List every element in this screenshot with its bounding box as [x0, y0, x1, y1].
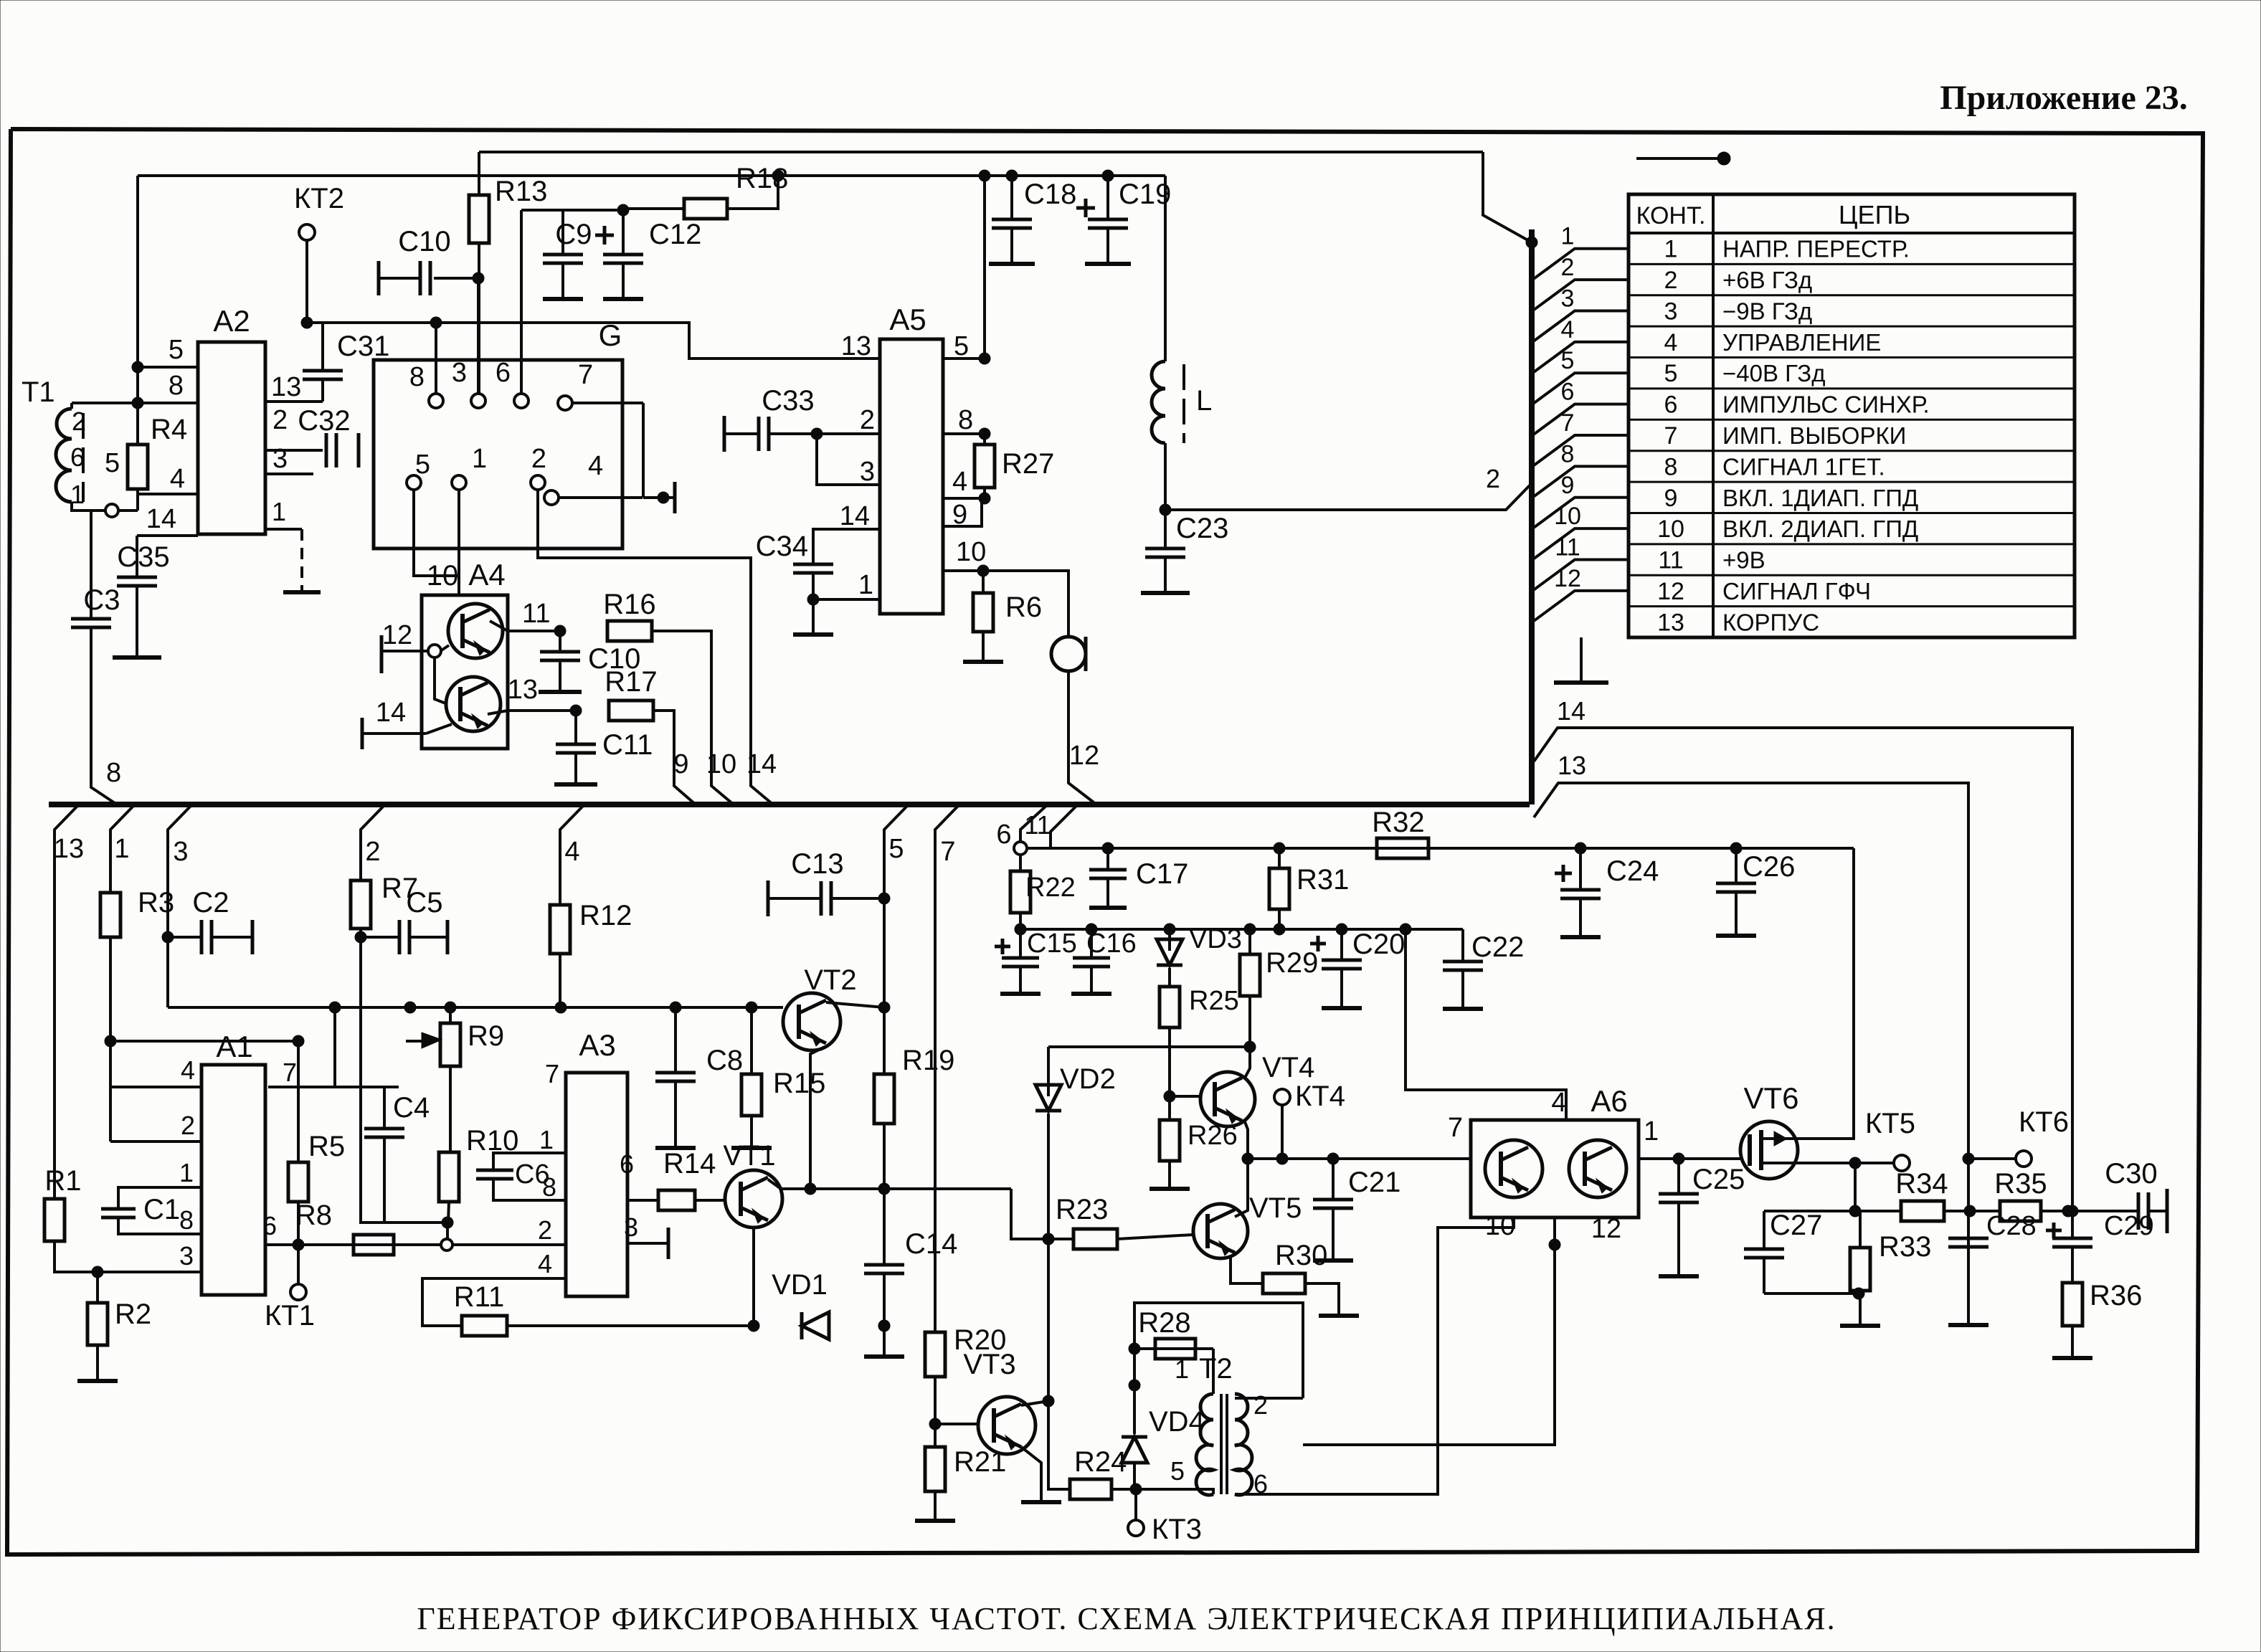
svg-text:14: 14: [146, 504, 176, 534]
svg-text:3: 3: [179, 1241, 194, 1271]
svg-text:А3: А3: [579, 1028, 615, 1062]
svg-text:C29: C29: [2104, 1211, 2154, 1241]
svg-text:R13: R13: [495, 176, 547, 207]
svg-text:10: 10: [1485, 1211, 1515, 1241]
svg-text:R6: R6: [1005, 592, 1042, 623]
svg-text:6: 6: [996, 820, 1011, 850]
svg-text:8: 8: [169, 371, 184, 401]
svg-text:КТ6: КТ6: [2019, 1106, 2069, 1138]
svg-text:1: 1: [1561, 223, 1575, 250]
svg-text:C12: C12: [649, 219, 701, 250]
svg-text:2: 2: [1664, 267, 1678, 294]
svg-text:6: 6: [1561, 379, 1575, 406]
svg-text:6: 6: [620, 1149, 634, 1179]
svg-text:12: 12: [382, 620, 412, 650]
svg-text:C25: C25: [1692, 1164, 1745, 1195]
svg-text:VD3: VD3: [1189, 924, 1242, 954]
svg-text:14: 14: [1557, 696, 1585, 726]
svg-text:C15: C15: [1027, 929, 1077, 959]
svg-text:12: 12: [1554, 565, 1581, 592]
svg-text:C27: C27: [1770, 1210, 1822, 1241]
svg-text:7: 7: [283, 1058, 297, 1087]
svg-text:10: 10: [1554, 503, 1581, 530]
svg-text:12: 12: [1591, 1214, 1621, 1244]
svg-text:7: 7: [1561, 409, 1575, 437]
svg-text:R8: R8: [295, 1200, 332, 1231]
svg-text:НАПР. ПЕРЕСТР.: НАПР. ПЕРЕСТР.: [1722, 236, 1910, 262]
svg-text:13: 13: [1657, 609, 1684, 636]
svg-text:C32: C32: [298, 405, 350, 437]
svg-text:10: 10: [706, 749, 736, 779]
svg-text:C24: C24: [1606, 855, 1659, 887]
svg-text:C13: C13: [791, 848, 843, 880]
svg-text:А5: А5: [889, 303, 926, 336]
svg-text:3: 3: [452, 358, 467, 388]
svg-text:5: 5: [169, 335, 184, 365]
svg-text:А2: А2: [213, 304, 250, 338]
svg-text:6: 6: [70, 442, 85, 472]
svg-text:C26: C26: [1743, 851, 1795, 883]
svg-text:VD2: VD2: [1060, 1063, 1116, 1095]
svg-text:R21: R21: [954, 1446, 1006, 1478]
svg-text:14: 14: [376, 698, 406, 728]
svg-text:+6В ГЗд: +6В ГЗд: [1722, 267, 1812, 293]
svg-text:4: 4: [1664, 329, 1678, 356]
svg-text:13: 13: [508, 675, 538, 705]
svg-text:КТ3: КТ3: [1152, 1514, 1202, 1545]
svg-text:VD1: VD1: [772, 1269, 828, 1301]
svg-text:R2: R2: [115, 1299, 151, 1330]
svg-text:3: 3: [1664, 298, 1678, 325]
svg-text:R25: R25: [1189, 986, 1239, 1016]
svg-text:R24: R24: [1074, 1446, 1127, 1478]
svg-text:А4: А4: [468, 558, 505, 592]
svg-text:R28: R28: [1138, 1307, 1190, 1339]
svg-text:VT5: VT5: [1249, 1192, 1302, 1224]
svg-text:1: 1: [70, 480, 85, 509]
svg-text:C16: C16: [1086, 929, 1137, 959]
svg-text:5: 5: [888, 834, 904, 864]
svg-text:3: 3: [1561, 285, 1575, 312]
svg-text:C20: C20: [1352, 929, 1405, 960]
svg-text:13: 13: [271, 372, 301, 402]
svg-text:10: 10: [427, 560, 459, 592]
svg-text:ИМПУЛЬС СИНХР.: ИМПУЛЬС СИНХР.: [1722, 391, 1930, 418]
svg-text:C34: C34: [756, 531, 808, 562]
svg-text:4: 4: [564, 837, 579, 867]
svg-text:R4: R4: [151, 414, 187, 445]
svg-text:5: 5: [1561, 347, 1575, 374]
svg-text:VT3: VT3: [963, 1349, 1015, 1380]
svg-text:C19: C19: [1119, 179, 1171, 210]
svg-text:7: 7: [1664, 422, 1678, 450]
svg-text:C4: C4: [393, 1092, 430, 1124]
svg-text:R17: R17: [605, 666, 657, 698]
svg-text:−40В ГЗд: −40В ГЗд: [1722, 360, 1826, 386]
svg-text:8: 8: [409, 362, 425, 392]
svg-text:5: 5: [954, 331, 969, 361]
svg-text:C35: C35: [117, 541, 169, 573]
svg-text:КОРПУС: КОРПУС: [1722, 609, 1819, 635]
svg-text:7: 7: [545, 1059, 559, 1088]
svg-text:Т1: Т1: [22, 376, 55, 408]
svg-text:R34: R34: [1895, 1168, 1948, 1200]
svg-text:2: 2: [72, 407, 86, 436]
svg-text:11: 11: [1555, 534, 1580, 561]
svg-text:+9В: +9В: [1722, 547, 1765, 574]
svg-text:5: 5: [1664, 360, 1678, 387]
svg-text:10: 10: [956, 537, 986, 567]
svg-text:R23: R23: [1056, 1194, 1108, 1225]
svg-text:VT6: VT6: [1743, 1081, 1798, 1115]
svg-text:7: 7: [578, 360, 593, 390]
svg-text:7: 7: [1448, 1113, 1463, 1143]
svg-text:C10: C10: [398, 226, 450, 257]
svg-text:9: 9: [673, 749, 688, 779]
svg-text:8: 8: [1664, 453, 1678, 480]
svg-text:9: 9: [1664, 485, 1678, 512]
svg-text:Приложение 23.: Приложение 23.: [1940, 79, 2188, 117]
svg-text:C8: C8: [706, 1045, 743, 1076]
svg-text:R30: R30: [1275, 1240, 1327, 1271]
svg-text:R19: R19: [902, 1045, 954, 1076]
svg-text:5: 5: [105, 448, 120, 478]
svg-text:6: 6: [262, 1211, 277, 1240]
svg-text:5: 5: [1170, 1456, 1185, 1486]
svg-text:8: 8: [1561, 440, 1575, 467]
svg-text:ВКЛ. 1ДИАП. ГПД: ВКЛ. 1ДИАП. ГПД: [1722, 485, 1918, 511]
svg-text:2: 2: [1561, 254, 1575, 281]
svg-text:А6: А6: [1591, 1084, 1627, 1118]
svg-text:2: 2: [531, 444, 546, 474]
svg-text:C1: C1: [143, 1194, 180, 1225]
svg-text:R5: R5: [308, 1131, 345, 1162]
svg-text:КТ2: КТ2: [294, 183, 344, 214]
svg-text:R15: R15: [773, 1068, 825, 1099]
svg-text:2: 2: [181, 1111, 195, 1140]
svg-text:1: 1: [179, 1158, 194, 1187]
svg-text:2: 2: [1253, 1390, 1268, 1420]
svg-text:L: L: [1196, 385, 1212, 417]
svg-text:−9В ГЗд: −9В ГЗд: [1722, 298, 1812, 324]
svg-text:ИМП. ВЫБОРКИ: ИМП. ВЫБОРКИ: [1722, 422, 1906, 449]
svg-text:C17: C17: [1136, 858, 1188, 890]
svg-text:13: 13: [841, 331, 871, 361]
svg-text:VT4: VT4: [1262, 1052, 1314, 1083]
svg-text:4: 4: [1561, 316, 1575, 343]
svg-text:R35: R35: [1994, 1168, 2047, 1200]
svg-text:R27: R27: [1002, 448, 1054, 480]
svg-text:9: 9: [1561, 472, 1575, 499]
svg-text:2: 2: [860, 405, 875, 435]
svg-text:1: 1: [272, 497, 286, 526]
svg-text:4: 4: [588, 451, 603, 481]
svg-text:А1: А1: [216, 1030, 252, 1063]
svg-text:2: 2: [538, 1215, 552, 1245]
svg-text:C33: C33: [762, 385, 814, 417]
svg-text:4: 4: [1551, 1088, 1566, 1118]
svg-text:13: 13: [1558, 751, 1586, 780]
svg-text:R11: R11: [454, 1281, 504, 1313]
svg-text:1: 1: [858, 570, 873, 600]
svg-text:C11: C11: [602, 729, 653, 761]
svg-text:VD4: VD4: [1149, 1406, 1205, 1438]
svg-text:C14: C14: [905, 1228, 957, 1260]
svg-text:КОНТ.: КОНТ.: [1636, 202, 1706, 229]
svg-text:1: 1: [1644, 1116, 1659, 1147]
svg-text:3: 3: [624, 1212, 638, 1242]
svg-text:R33: R33: [1879, 1231, 1931, 1263]
svg-text:6: 6: [1664, 391, 1678, 419]
svg-text:7: 7: [940, 837, 955, 867]
svg-text:C6: C6: [515, 1159, 550, 1190]
svg-text:СИГНАЛ ГФЧ: СИГНАЛ ГФЧ: [1722, 578, 1871, 604]
svg-text:R22: R22: [1025, 873, 1076, 903]
svg-text:R32: R32: [1372, 807, 1424, 838]
svg-text:СИГНАЛ 1ГЕТ.: СИГНАЛ 1ГЕТ.: [1722, 453, 1885, 480]
svg-text:3: 3: [272, 444, 288, 474]
svg-text:VT2: VT2: [804, 964, 856, 996]
svg-text:2: 2: [272, 405, 288, 435]
svg-text:8: 8: [958, 405, 973, 435]
svg-text:C5: C5: [406, 887, 442, 918]
svg-text:R12: R12: [579, 900, 632, 931]
svg-text:C31: C31: [337, 331, 389, 362]
svg-text:G: G: [599, 318, 622, 352]
svg-text:5: 5: [415, 450, 430, 480]
svg-text:2: 2: [1486, 464, 1500, 493]
svg-text:R36: R36: [2090, 1280, 2142, 1311]
svg-text:11: 11: [522, 599, 550, 629]
svg-text:14: 14: [746, 749, 777, 779]
svg-text:10: 10: [1657, 516, 1684, 543]
svg-text:1: 1: [472, 444, 487, 474]
svg-text:12: 12: [1657, 578, 1684, 605]
svg-text:R9: R9: [468, 1020, 504, 1052]
svg-text:1: 1: [114, 834, 129, 864]
svg-text:13: 13: [54, 834, 84, 864]
svg-text:ГЕНЕРАТОР ФИКСИРОВАННЫХ ЧАСТОТ: ГЕНЕРАТОР ФИКСИРОВАННЫХ ЧАСТОТ. СХЕМА ЭЛ…: [417, 1601, 1836, 1636]
svg-text:КТ5: КТ5: [1865, 1108, 1915, 1139]
svg-text:C18: C18: [1024, 179, 1076, 210]
svg-text:11: 11: [1024, 810, 1051, 840]
svg-text:C21: C21: [1348, 1167, 1400, 1198]
svg-text:КТ4: КТ4: [1295, 1081, 1345, 1112]
svg-text:ВКЛ. 2ДИАП. ГПД: ВКЛ. 2ДИАП. ГПД: [1722, 516, 1918, 542]
svg-text:14: 14: [840, 501, 870, 531]
svg-text:VT1: VT1: [723, 1140, 775, 1172]
svg-text:C23: C23: [1176, 513, 1228, 544]
svg-text:2: 2: [365, 837, 380, 867]
svg-text:4: 4: [952, 467, 967, 497]
svg-text:4: 4: [538, 1249, 552, 1278]
svg-text:8: 8: [106, 758, 121, 788]
svg-text:C30: C30: [2105, 1158, 2157, 1190]
svg-text:R29: R29: [1266, 947, 1318, 979]
svg-text:R31: R31: [1297, 864, 1349, 896]
svg-text:3: 3: [173, 837, 188, 867]
svg-text:ЦЕПЬ: ЦЕПЬ: [1839, 200, 1910, 229]
svg-text:C22: C22: [1471, 931, 1524, 963]
svg-text:КТ1: КТ1: [265, 1300, 315, 1331]
svg-text:1: 1: [1175, 1354, 1189, 1384]
svg-text:1: 1: [1664, 236, 1678, 263]
svg-text:4: 4: [170, 464, 185, 494]
svg-text:1: 1: [539, 1125, 554, 1154]
svg-text:УПРАВЛЕНИЕ: УПРАВЛЕНИЕ: [1722, 329, 1881, 356]
svg-text:11: 11: [1658, 547, 1683, 574]
svg-text:R1: R1: [44, 1165, 81, 1197]
svg-text:R16: R16: [603, 589, 655, 620]
svg-text:C2: C2: [192, 887, 229, 918]
svg-text:C28: C28: [1986, 1211, 2037, 1241]
svg-text:C9: C9: [555, 219, 592, 250]
svg-text:4: 4: [181, 1055, 195, 1085]
svg-text:6: 6: [496, 358, 511, 388]
svg-text:R14: R14: [663, 1148, 716, 1179]
svg-text:8: 8: [179, 1205, 194, 1235]
svg-text:12: 12: [1069, 741, 1099, 771]
svg-text:C3: C3: [83, 584, 120, 616]
svg-text:R18: R18: [736, 163, 788, 194]
svg-text:3: 3: [860, 457, 875, 487]
svg-text:Т2: Т2: [1199, 1353, 1233, 1385]
